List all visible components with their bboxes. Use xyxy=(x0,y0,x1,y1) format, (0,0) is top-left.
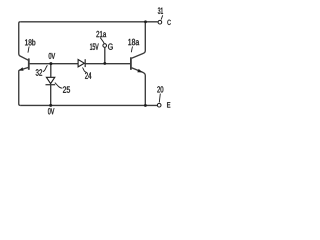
label 18a xyxy=(128,39,139,45)
wire diode 25 to bottom rail xyxy=(50,85,52,106)
leader line label 18a xyxy=(131,47,132,53)
label 21a xyxy=(96,31,106,37)
label 18b xyxy=(25,39,35,45)
label 20 xyxy=(157,86,163,92)
leader line label 31 xyxy=(161,15,163,19)
leader line label 24 xyxy=(82,68,86,73)
label C xyxy=(167,20,170,25)
wire left rail upper segment and transistor Q 18b collector slant xyxy=(19,22,29,61)
wire diode 24 to gate node to 18a base xyxy=(85,63,130,65)
transistor Q 18b base bar xyxy=(28,58,30,69)
terminal circle C xyxy=(158,20,162,24)
junction node dot top right xyxy=(144,20,147,23)
terminal circle G xyxy=(103,44,107,48)
leader line label 20 xyxy=(159,94,160,103)
wire bottom rail E xyxy=(20,104,157,106)
wire left rail lower segment from 18b emitter xyxy=(19,70,20,105)
wire top rail C xyxy=(20,21,158,23)
label 0V top xyxy=(49,53,55,59)
wire base 18b to diode 24 xyxy=(30,63,79,65)
transistor Q 18a emitter arrowhead xyxy=(137,69,142,73)
label 0V bottom xyxy=(48,108,54,114)
transistor Q 18b emitter slant xyxy=(19,67,29,70)
junction node dot 0V top xyxy=(49,62,52,65)
junction node dot bottom right xyxy=(144,104,147,107)
label 15V xyxy=(90,44,99,50)
junction node dot gate xyxy=(103,62,106,65)
transistor Q 18a emitter slant and riser xyxy=(132,68,146,106)
label 25 xyxy=(63,86,70,92)
wire riser 0V node to diode 25 xyxy=(50,64,52,78)
transistor Q 18a base bar xyxy=(130,57,132,70)
label G xyxy=(108,44,113,50)
diode D24 triangle xyxy=(78,60,84,67)
wire riser gate node to G circle xyxy=(104,48,106,64)
transistor Q 18b emitter arrowhead xyxy=(19,67,24,70)
diode D24 cathode bar xyxy=(84,59,86,67)
transistor Q 18a collector slant and riser xyxy=(132,22,146,58)
label 31 xyxy=(158,8,163,14)
leader line label 25 xyxy=(55,83,63,89)
diode D25 cathode bar xyxy=(46,84,56,86)
junction node dot bottom left xyxy=(49,104,52,107)
label 24 xyxy=(85,72,91,79)
label E xyxy=(167,102,170,107)
leader line label 32 xyxy=(43,65,48,71)
diode D25 triangle xyxy=(46,77,54,83)
leader line label 18b xyxy=(28,47,29,53)
terminal circle E xyxy=(157,103,161,107)
leader line label 21a xyxy=(100,38,104,44)
label 32 xyxy=(36,69,42,75)
